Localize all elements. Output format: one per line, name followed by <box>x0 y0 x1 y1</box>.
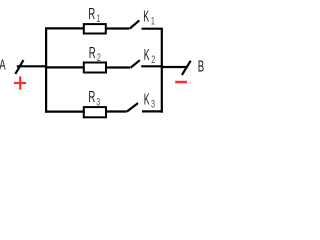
wire row1 R1 to switch pivot <box>106 27 129 29</box>
polarity plus (red) <box>14 76 26 89</box>
switch K1 blade <box>130 20 140 28</box>
label R2 subscript 2 <box>97 52 101 64</box>
label K3 <box>144 89 150 108</box>
label terminal A <box>0 56 6 73</box>
svg-text:R: R <box>88 5 95 23</box>
wire K1 fixed contact <box>142 28 163 30</box>
svg-text:R: R <box>88 88 95 106</box>
label K1 <box>143 7 149 26</box>
svg-text:K: K <box>143 7 149 26</box>
label K3 subscript 3 <box>151 98 155 110</box>
wire terminal A to bus <box>17 65 47 67</box>
wire K3 fixed contact <box>142 110 163 112</box>
wire bus to terminal B <box>161 66 186 68</box>
wire row3 R3 to switch pivot <box>106 110 127 112</box>
terminal A stroke <box>15 60 23 74</box>
svg-text:B: B <box>198 57 204 75</box>
label K2 subscript 2 <box>151 54 155 66</box>
svg-text:K: K <box>144 89 150 108</box>
svg-text:2: 2 <box>97 52 101 64</box>
switch K3 blade <box>127 103 138 112</box>
wire row2 bus to R2 <box>45 66 84 68</box>
resistor R2 <box>84 63 106 73</box>
svg-text:3: 3 <box>96 96 100 108</box>
resistor R3 <box>84 107 106 117</box>
svg-text:R: R <box>89 43 96 61</box>
label K2 <box>144 45 150 64</box>
svg-text:3: 3 <box>151 98 155 110</box>
label R1 subscript 1 <box>96 13 100 25</box>
svg-text:1: 1 <box>96 13 100 25</box>
svg-text:1: 1 <box>151 15 155 27</box>
label terminal B <box>198 57 204 75</box>
wire row1 bus to R1 <box>45 27 84 29</box>
switch K2 blade <box>131 60 140 67</box>
terminal B stroke <box>182 61 191 75</box>
resistor R1 <box>84 24 106 33</box>
label R3 <box>88 88 95 106</box>
label K1 subscript 1 <box>151 15 155 27</box>
wire K2 fixed contact <box>141 65 163 67</box>
label R1 <box>88 5 95 23</box>
svg-text:2: 2 <box>151 54 155 66</box>
polarity minus (red) <box>175 81 187 84</box>
svg-text:A: A <box>0 56 6 73</box>
wire row3 bus to R3 <box>45 110 84 112</box>
label R2 <box>89 43 96 61</box>
wire right bus vertical <box>161 28 163 113</box>
label R3 subscript 3 <box>96 96 100 108</box>
wire row2 R2 to switch pivot <box>106 66 130 68</box>
svg-text:K: K <box>144 45 150 64</box>
wire left bus vertical <box>45 27 47 112</box>
